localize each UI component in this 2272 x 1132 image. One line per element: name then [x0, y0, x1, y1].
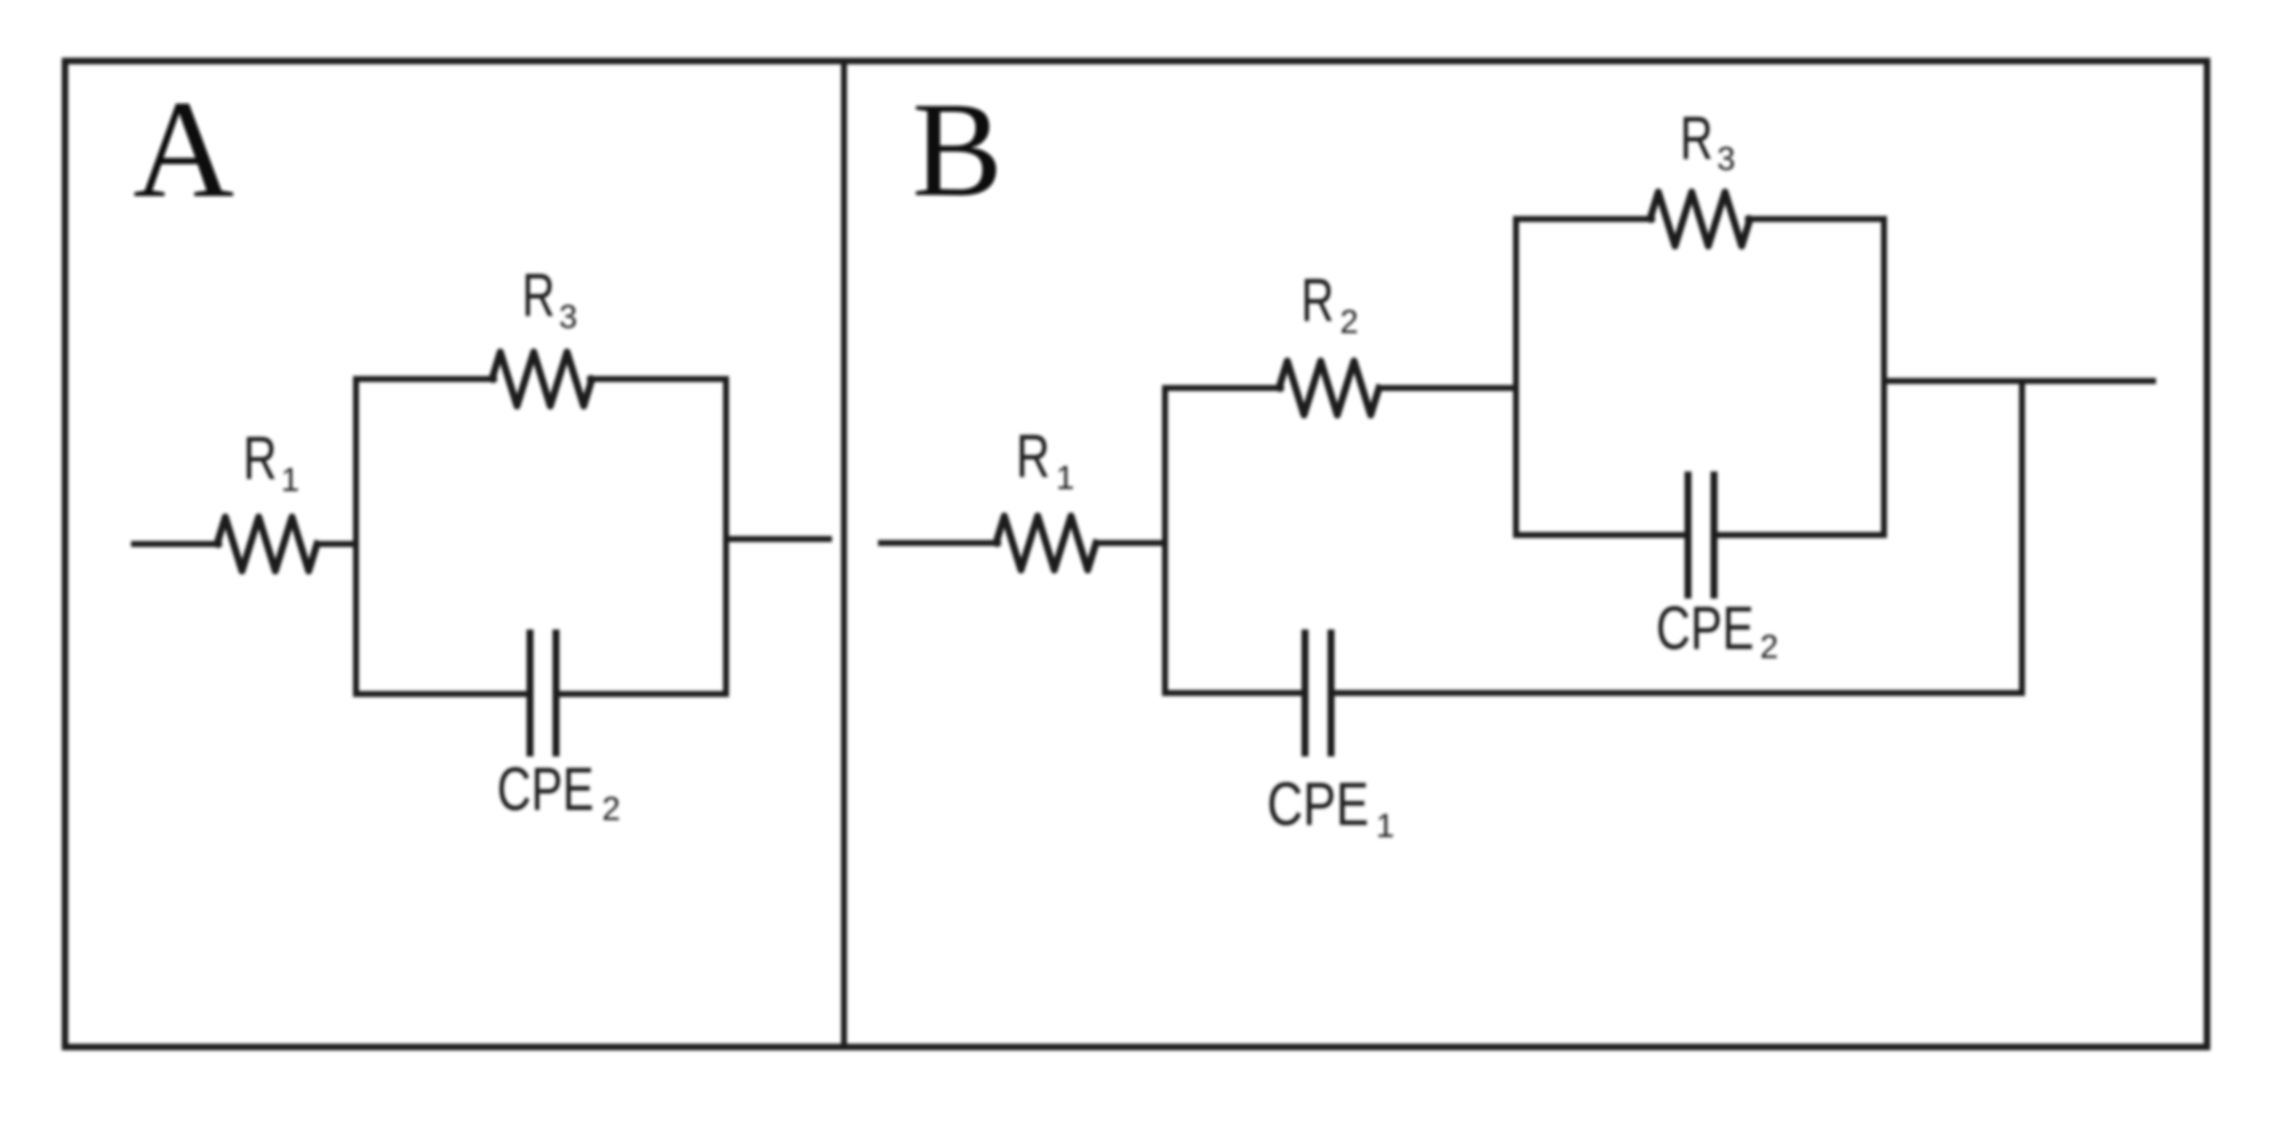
label CPE2 (panel B) [1656, 594, 1778, 665]
wire A input [134, 541, 219, 547]
svg-text:R: R [522, 261, 555, 329]
capacitor CPE2 (panel B) plates [1685, 475, 1692, 595]
label CPE2 (panel A) [497, 755, 620, 827]
wire B outer loop left vertical [1162, 388, 1168, 693]
wire A loop bottom right segment [559, 691, 726, 697]
label R3 (panel B) [1680, 104, 1735, 177]
wire B input [881, 540, 998, 546]
svg-text:R: R [1301, 266, 1334, 334]
svg-text:3: 3 [1717, 140, 1735, 177]
wire B outer loop bottom left segment [1165, 690, 1302, 696]
label R1 (panel B) [1016, 422, 1074, 496]
wire B R2-to-inner-loop segment [1379, 385, 1516, 391]
resistor R2 (panel B) [1279, 361, 1379, 415]
wire A loop left vertical [353, 379, 359, 694]
label R2 (panel B) [1301, 266, 1358, 340]
svg-text:3: 3 [559, 298, 577, 335]
wire B inner loop top left segment [1516, 216, 1652, 222]
svg-text:1: 1 [1056, 459, 1074, 496]
resistor R3 (panel A) [492, 352, 592, 406]
resistor R3 (panel B) [1650, 192, 1750, 246]
svg-text:CPE: CPE [1656, 594, 1754, 662]
svg-text:R: R [1680, 104, 1713, 172]
label R3 (panel A) [522, 261, 577, 335]
wire B junction vertical [2019, 381, 2025, 693]
svg-text:2: 2 [1340, 303, 1358, 340]
wire B R1-to-loop stub [1096, 540, 1165, 546]
wire B inner loop bottom left segment [1516, 532, 1685, 538]
wire B inner loop bottom right segment [1717, 532, 1884, 538]
wire B outer loop top left segment [1165, 385, 1281, 391]
wire B output [1884, 378, 2153, 384]
svg-text:2: 2 [602, 790, 620, 827]
wire B outer loop bottom right segment [1334, 690, 2022, 696]
wire A loop right vertical [723, 379, 729, 694]
wire A R1-to-loop stub [317, 541, 356, 547]
svg-text:CPE: CPE [1267, 770, 1369, 838]
capacitor CPE2 (panel A) plates [527, 633, 534, 753]
wire A output [726, 536, 829, 542]
wire A loop top right segment [590, 376, 726, 382]
resistor R1 (panel A) [217, 517, 317, 571]
label R1 (panel A) [243, 424, 299, 498]
svg-text:B: B [912, 75, 1003, 225]
svg-text:R: R [243, 424, 277, 492]
wire B inner loop left vertical [1513, 219, 1519, 535]
svg-text:1: 1 [281, 461, 299, 498]
svg-text:1: 1 [1376, 807, 1394, 844]
svg-text:R: R [1016, 422, 1050, 490]
svg-text:A: A [133, 72, 234, 227]
svg-text:CPE: CPE [497, 755, 594, 823]
wire A loop top left segment [356, 376, 494, 382]
svg-text:2: 2 [1760, 628, 1778, 665]
wire B inner loop right vertical [1881, 219, 1887, 535]
label CPE1 (panel B) [1267, 770, 1394, 844]
capacitor CPE1 (panel B) plates [1302, 633, 1309, 753]
wire A loop bottom left segment [356, 691, 527, 697]
resistor R1 (panel B) [996, 516, 1096, 570]
wire B inner loop top right segment [1748, 216, 1884, 222]
